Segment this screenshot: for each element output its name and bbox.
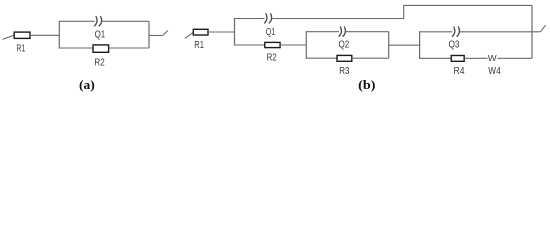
junction bar 2 right (b) bbox=[388, 32, 390, 59]
svg-text:R1: R1 bbox=[194, 40, 204, 51]
svg-text:R2: R2 bbox=[267, 52, 277, 63]
wire R1 to bar1 (b) bbox=[208, 31, 234, 33]
output switch tick (b) bbox=[541, 25, 546, 32]
svg-text:R2: R2 bbox=[94, 58, 104, 69]
right junction bar (a) bbox=[148, 21, 150, 48]
top branch wire right (a) bbox=[102, 20, 149, 22]
resistor R4 (b) bbox=[451, 56, 464, 62]
svg-text:R3: R3 bbox=[339, 66, 349, 77]
wire R4 to W4 (b) bbox=[464, 57, 487, 59]
R2 branch wire left (b) bbox=[234, 44, 265, 46]
svg-text:Q3: Q3 bbox=[449, 39, 460, 50]
svg-text:(a): (a) bbox=[79, 77, 95, 92]
junction bar 1 (b) bbox=[234, 19, 236, 46]
svg-text:(b): (b) bbox=[358, 77, 375, 92]
svg-text:Q1: Q1 bbox=[266, 27, 276, 38]
junction bar 3 left (b) bbox=[419, 32, 421, 59]
output stub (b) bbox=[532, 31, 541, 33]
bottom branch wire right (a) bbox=[109, 47, 149, 49]
junction bar 2 left (b) bbox=[305, 32, 307, 59]
wire R1 to left bar (a) bbox=[30, 34, 59, 36]
resistor R2 (a) bbox=[93, 45, 109, 52]
spark gap Q2 (b) bbox=[339, 27, 346, 37]
connector wire block2 to block3 (b) bbox=[389, 44, 420, 46]
bottom branch wire left (a) bbox=[59, 47, 93, 49]
R4 branch wire left (b) bbox=[419, 57, 451, 59]
input terminal lead (b) bbox=[185, 32, 193, 38]
svg-text:R4: R4 bbox=[454, 66, 465, 77]
svg-text:W: W bbox=[488, 53, 497, 63]
svg-text:R1: R1 bbox=[16, 44, 25, 55]
Q2 branch wire right (b) bbox=[346, 31, 389, 33]
Q2 branch wire left (b) bbox=[306, 31, 339, 33]
wire W4 to right bar (b) bbox=[498, 57, 533, 59]
R2 branch wire right (b) bbox=[280, 44, 306, 46]
resistor R1 (b) bbox=[193, 29, 208, 35]
left junction bar (a) bbox=[58, 21, 60, 48]
resistor R1 (a) bbox=[14, 32, 30, 38]
svg-text:W4: W4 bbox=[488, 66, 501, 77]
resistor R2 (b) bbox=[265, 42, 280, 47]
Q3 branch wire right (b) bbox=[460, 31, 532, 33]
R3 branch wire left (b) bbox=[306, 57, 337, 59]
spark gap Q1 (b) bbox=[264, 13, 271, 23]
Q1 branch wire left (b) bbox=[234, 18, 265, 20]
top branch wire left (a) bbox=[59, 20, 95, 22]
R3 branch wire right (b) bbox=[352, 57, 389, 59]
Q1 branch wire right + riser + top wire (b) bbox=[272, 5, 532, 18]
svg-text:Q1: Q1 bbox=[95, 29, 106, 40]
output wire (a) bbox=[149, 35, 163, 37]
input terminal lead (a) bbox=[3, 35, 15, 39]
svg-text:Q2: Q2 bbox=[339, 39, 350, 50]
spark gap Q3 (b) bbox=[452, 27, 459, 37]
right junction bar (b) bbox=[531, 5, 533, 58]
spark gap Q1 (a) bbox=[94, 16, 101, 26]
resistor R3 (b) bbox=[337, 55, 352, 61]
Q3 branch wire left (b) bbox=[419, 31, 452, 33]
output switch tick (a) bbox=[163, 31, 169, 36]
